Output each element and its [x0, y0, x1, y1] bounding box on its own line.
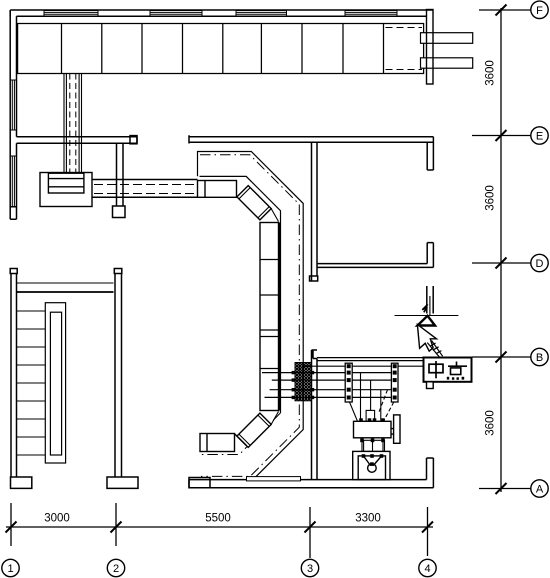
- stair landing lines: [17, 291, 114, 293]
- starter box K1: [354, 415, 401, 443]
- svg-text:3: 3: [307, 563, 313, 575]
- stairwell left wall: [10, 269, 32, 489]
- grid bubble 4: [419, 559, 436, 576]
- horizontal bus run transformer to corner: [92, 180, 198, 198]
- cursor tail hatch: [427, 341, 442, 358]
- cable tray outer boundary solid: [198, 152, 304, 480]
- bus duct bottom diagonal section: [237, 413, 271, 447]
- cabinet row (switchgear): [18, 24, 424, 74]
- wire w2: [262, 372, 398, 374]
- cable tray inner boundary dash-dot (bottom leg): [200, 413, 281, 455]
- cabinet last cell dashed lines: [386, 28, 423, 70]
- wall: right exterior D return: [427, 243, 433, 268]
- crosshair horizontal: [395, 315, 459, 317]
- svg-text:4: 4: [424, 563, 430, 575]
- svg-text:F: F: [536, 5, 543, 17]
- extension line 1: [10, 503, 12, 546]
- ticks bottom dim: [6, 522, 434, 533]
- glyph 中: [429, 361, 443, 378]
- wall: right exterior E return: [427, 137, 433, 170]
- osnap squiggle: [422, 304, 428, 312]
- ticks right dim: [496, 5, 507, 495]
- window left W6: [10, 156, 16, 207]
- flanges vertical duct: [260, 260, 279, 369]
- grid bubble 1: [2, 559, 19, 576]
- svg-text:5500: 5500: [205, 513, 231, 525]
- wall: E-level right segment: [189, 135, 433, 143]
- leader A: [479, 488, 531, 490]
- wall: bottom exterior: [189, 478, 433, 488]
- leader D: [472, 262, 531, 264]
- grid bubble 3: [301, 559, 318, 576]
- svg-text:2: 2: [113, 563, 119, 575]
- junction dots on strips and wall: [292, 364, 397, 399]
- cable tray inner boundary solid: [200, 176, 281, 413]
- osnap midpoint triangle: [418, 316, 436, 326]
- window left W5: [10, 80, 16, 130]
- grid bubble E: [531, 127, 548, 144]
- wall: interior vertical x~120: [113, 143, 126, 217]
- wire w3: [272, 379, 398, 381]
- terminal strip TB1: [345, 363, 352, 402]
- svg-text:3300: 3300: [355, 513, 381, 525]
- bus duct bottom section: [200, 434, 246, 452]
- crosshair vertical: [429, 296, 431, 316]
- svg-text:3600: 3600: [485, 185, 497, 211]
- wall: right room left wall (upper): [310, 142, 318, 281]
- bus duct top diagonal section: [237, 186, 271, 220]
- svg-text:A: A: [536, 484, 544, 496]
- stairwell right wall: [107, 269, 138, 489]
- wall: left exterior double line: [10, 10, 16, 219]
- leader E: [472, 135, 531, 137]
- wall: B-level thin partition: [317, 358, 424, 361]
- extension line 2: [115, 503, 117, 546]
- svg-text:D: D: [536, 258, 544, 270]
- flange ticks bottom diagonal: [239, 412, 279, 446]
- cable tray outer boundary dash-dot: [200, 155, 299, 477]
- grid dim line right vertical: [500, 8, 502, 492]
- tooltip box 中点: [424, 358, 472, 389]
- dots on starter terminals: [359, 418, 385, 442]
- wall: right exterior segment below D: [427, 286, 433, 314]
- grid bubble B: [531, 348, 548, 365]
- flange ticks top diagonal: [239, 188, 279, 222]
- window top W3: [236, 11, 287, 17]
- stair landing edge: [17, 282, 114, 284]
- window top W2: [150, 11, 202, 17]
- neck under starter: [362, 440, 385, 451]
- wire w5: [265, 396, 399, 398]
- grid bubble 2: [107, 559, 124, 576]
- riser duct from cabinet to transformer: [64, 74, 82, 173]
- wall: D-level: [317, 264, 433, 268]
- wire w1: [302, 365, 424, 367]
- grid bubble F: [531, 1, 548, 18]
- svg-text:B: B: [536, 352, 543, 364]
- svg-text:3600: 3600: [485, 410, 497, 436]
- window top W4: [345, 11, 397, 17]
- transformer T1: [40, 173, 92, 207]
- pump/motor housing: [353, 451, 390, 479]
- extension line 3: [309, 507, 311, 558]
- bottom dim line: [6, 526, 433, 528]
- glyph 点: [448, 362, 467, 375]
- grid bubble D: [531, 254, 548, 271]
- leader B: [472, 356, 531, 358]
- svg-text:3600: 3600: [485, 60, 497, 86]
- terminal strip TB2: [391, 363, 398, 402]
- stair railing: [45, 303, 65, 463]
- window top W1: [44, 11, 98, 17]
- right end vertical bar: [427, 10, 434, 85]
- door sill in bottom wall: [247, 477, 301, 481]
- wall: E-level left segment: [17, 136, 138, 144]
- svg-text:3000: 3000: [44, 513, 70, 525]
- grid bubble A: [531, 480, 548, 497]
- wall: lower-right room left wall: [312, 350, 318, 480]
- stair treads: [17, 311, 46, 455]
- extension line 4: [427, 507, 429, 556]
- mouse cursor arrow: [417, 325, 436, 352]
- busbar bars to right: [421, 33, 473, 68]
- bus duct vertical section: [260, 223, 280, 411]
- leads from strips to starter: [350, 373, 381, 422]
- bus duct corner section (top): [198, 181, 237, 198]
- wire w4: [270, 389, 398, 391]
- wall: top exterior double line: [10, 10, 433, 16]
- svg-text:E: E: [536, 131, 543, 143]
- wall: bottom-right L return: [427, 458, 434, 488]
- leader F: [479, 9, 531, 11]
- svg-text:1: 1: [7, 563, 13, 575]
- wall penetration hatch block: [295, 363, 311, 401]
